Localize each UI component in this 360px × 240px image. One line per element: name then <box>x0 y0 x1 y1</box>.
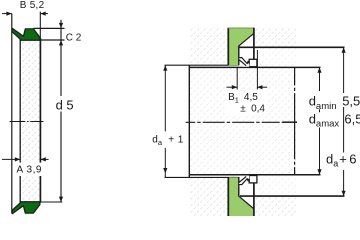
extension line seal outer top (d_a max) <box>239 46 345 48</box>
lower seal lip (white band) <box>239 176 250 185</box>
svg-text:A 3,9: A 3,9 <box>17 164 43 175</box>
wall chamfer <box>239 34 254 46</box>
dimension B1 right arrow <box>257 86 267 88</box>
white region behind seal <box>239 34 258 67</box>
seal body <box>249 59 257 66</box>
metal region hatch <box>189 27 296 216</box>
white gap strip between wall bore and shaft (top) <box>165 65 227 68</box>
lower wall left edge <box>227 177 229 217</box>
svg-text:B 5,2: B 5,2 <box>20 0 45 11</box>
svg-text:C 2: C 2 <box>66 32 82 43</box>
white gap strip between shaft and lower wall bore <box>165 176 227 177</box>
seal body left edge <box>19 40 21 202</box>
wall bore line bottom (thin, d_a+1 extension) <box>165 176 240 178</box>
svg-text:da+6: da+6 <box>326 152 356 169</box>
center tick <box>283 121 298 123</box>
white region behind lower seal <box>239 176 258 209</box>
svg-text:5,5: 5,5 <box>342 94 360 109</box>
shaft bottom edge <box>189 174 320 176</box>
dimension B1: extension lines + arrows <box>225 91 269 115</box>
seal body visible face (hatched) <box>20 40 40 202</box>
counterface wall (light green) <box>228 28 253 66</box>
lower wall bore face <box>238 177 240 197</box>
dimension A left arrow <box>2 158 20 160</box>
seal section bottom (green, mirrored) <box>12 202 40 214</box>
seal section top (green) <box>12 28 40 40</box>
centerline (dash-dot) <box>10 121 44 123</box>
wall top faint edge <box>228 27 254 29</box>
dimension C extension lines <box>34 27 65 29</box>
dimension d_a min (right inner) <box>319 67 321 91</box>
lip tip edge line (left vertical) <box>11 14 13 214</box>
extension line seal outer bottom <box>240 195 345 197</box>
dimension d_a+1 (left) <box>164 65 166 131</box>
svg-text:d 5: d 5 <box>56 98 74 113</box>
extension line B right <box>39 12 41 38</box>
shaft break line (vertical dash-dot) <box>294 67 296 174</box>
dimension A right arrow <box>40 158 48 160</box>
wall bore face <box>238 46 240 66</box>
lower counterface wall (light green) <box>228 177 253 217</box>
svg-text:±0,4: ±0,4 <box>240 104 265 115</box>
dimension B left arrow <box>2 13 12 15</box>
shaft interior (lighter hatch) <box>190 68 295 174</box>
wall left edge <box>227 28 229 65</box>
lower wall right edge / seal back line <box>253 183 255 217</box>
svg-text:da+1: da+1 <box>152 134 183 147</box>
svg-text:6,5: 6,5 <box>344 111 360 126</box>
dimension B right arrow <box>40 13 48 15</box>
lower seal body <box>249 176 257 183</box>
soften hatch right of seal (top and bottom) <box>258 48 296 66</box>
dimension line C / d (vertical) <box>60 20 62 29</box>
shaft left edge <box>188 65 190 177</box>
seal lip (white band) <box>239 58 250 67</box>
shaft axis centerline (dash-dot) <box>186 121 297 123</box>
svg-text:B14,5: B14,5 <box>228 92 258 105</box>
extension line d bottom <box>41 201 62 203</box>
lower wall chamfer <box>239 196 254 208</box>
wall bore line top (thin, d_a+1 extension) <box>165 64 240 66</box>
lower seal lip inner edge <box>239 177 246 183</box>
seal body bottom edge <box>20 201 42 203</box>
seal body right edge <box>39 38 41 202</box>
shaft top edge <box>189 66 320 68</box>
dimension B1 left arrow <box>227 86 238 88</box>
dimension d_a max / d_a+6 (right outer) <box>343 47 345 93</box>
wall right edge / seal back line <box>253 28 255 60</box>
seal body top edge <box>20 39 42 41</box>
